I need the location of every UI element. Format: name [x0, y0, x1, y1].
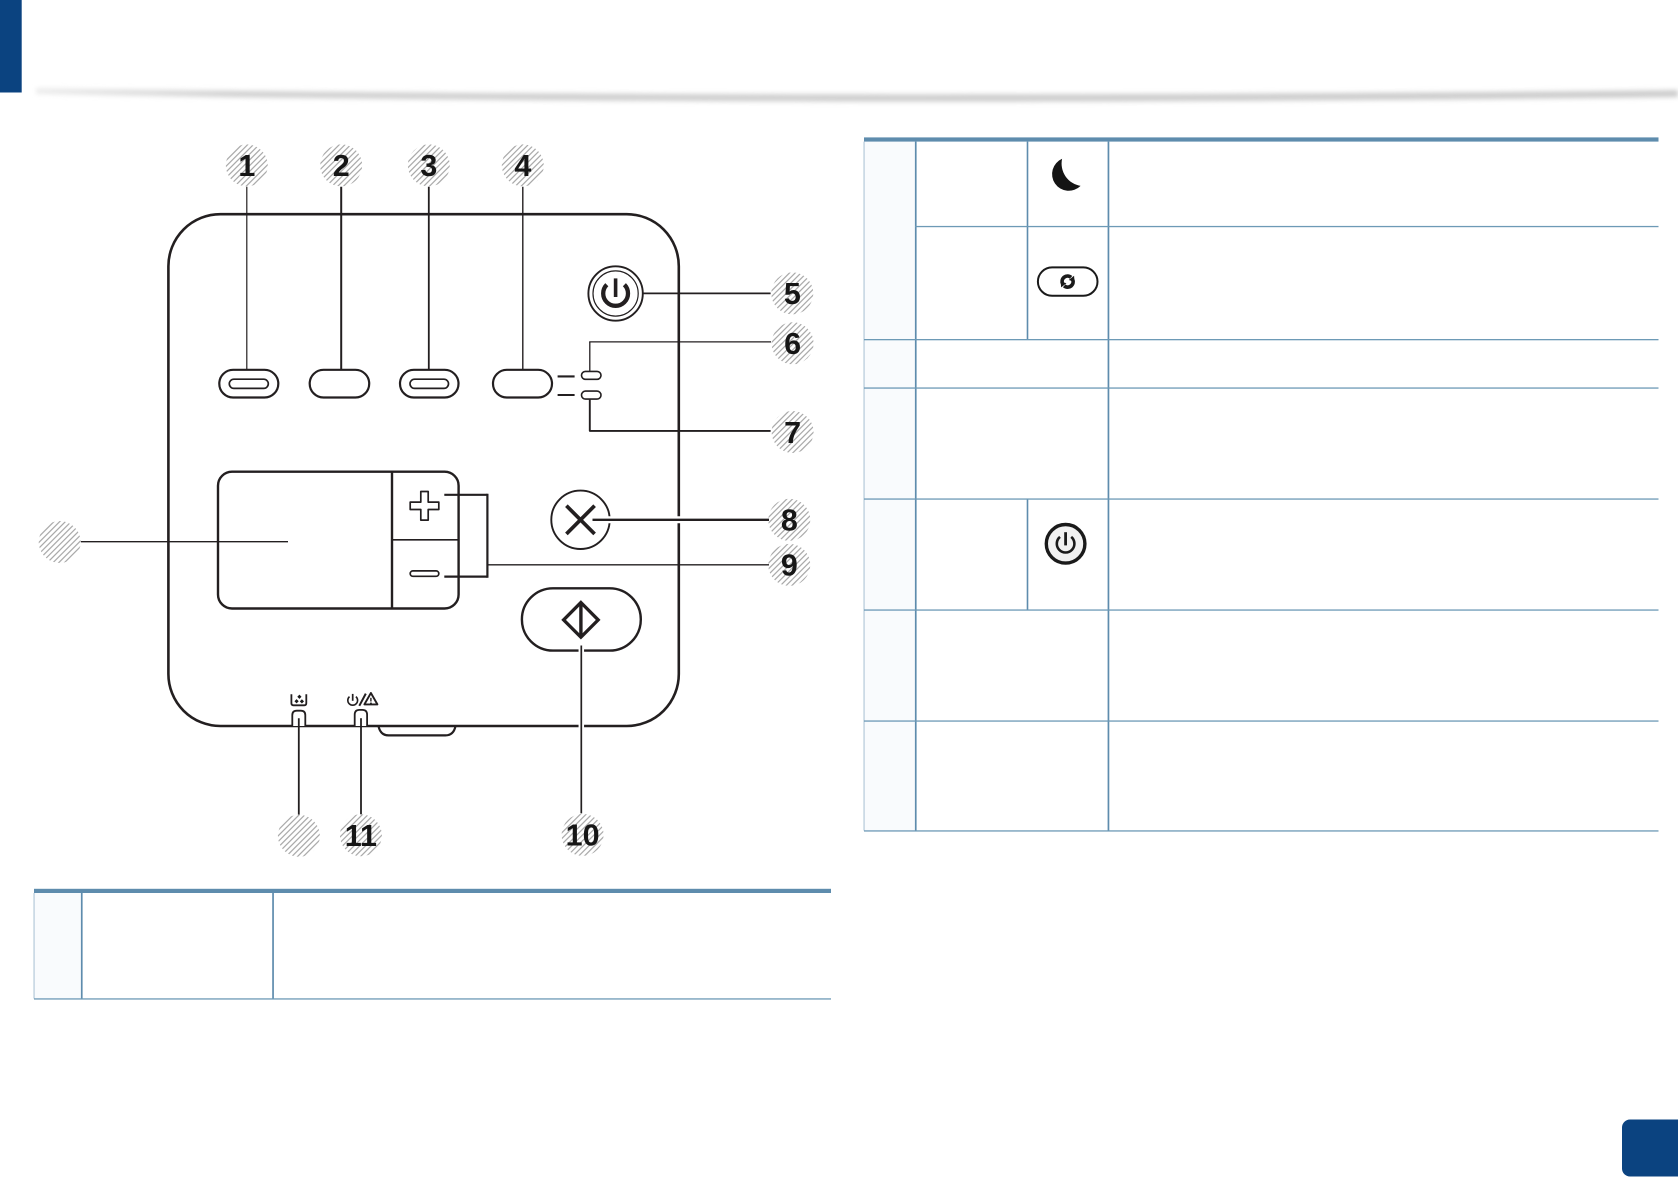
toner unnumbered callout: [278, 815, 320, 857]
bottom border: [34, 998, 831, 999]
svg-text:3: 3: [420, 149, 437, 183]
bracket for +/-: [444, 494, 487, 496]
eco glyph arrows: [1057, 272, 1078, 291]
toner callout line: [298, 718, 300, 814]
bottom tab: [379, 726, 456, 735]
svg-text:5: 5: [784, 277, 801, 311]
svg-text:6: 6: [784, 327, 801, 361]
vertical divider col2/col3 row 5: [1027, 499, 1029, 610]
power LED callout line: [360, 718, 362, 814]
col1 light background: [34, 893, 82, 999]
bottom-right navy block: [1622, 1120, 1678, 1177]
power icon (table): [1046, 525, 1085, 564]
callout line 2: [340, 187, 342, 369]
svg-text:10: 10: [566, 819, 600, 853]
callout line 10 with white casing: [579, 646, 585, 814]
CONTROL PANEL DIAGRAM: [81, 187, 771, 815]
screen divider: [391, 472, 393, 609]
X glyph: [566, 506, 594, 534]
LED dash 2: [558, 394, 575, 396]
screen: [218, 472, 459, 609]
start button: [522, 588, 641, 650]
callout 10: [562, 814, 604, 856]
row border 2: [864, 339, 1659, 340]
callout 11: [340, 814, 382, 856]
panel body outline: [168, 214, 678, 726]
start glyph (diamond + bar): [564, 603, 599, 638]
left callout line: [81, 541, 288, 543]
X (cancel) button: [551, 491, 609, 549]
callout line 3: [428, 187, 430, 369]
button 1: [219, 370, 278, 398]
toner status icon: [291, 694, 306, 705]
header curl shadow band: [0, 0, 1, 1]
callout line 7 (vertical from LED2 + horizontal): [589, 400, 591, 431]
callout 3: [408, 144, 450, 186]
row border 1: [915, 226, 1659, 227]
button 4: [493, 370, 552, 398]
callout 7: [772, 411, 814, 453]
bottom border: [864, 830, 1659, 831]
button 3: [400, 370, 459, 398]
callout line 9: [487, 564, 769, 566]
vertical divider col3/col4: [1108, 142, 1110, 831]
left edge: [34, 893, 35, 999]
power LED: [355, 710, 367, 726]
row border 4: [864, 498, 1659, 499]
minus glyph: [410, 571, 439, 576]
thick top border: [864, 137, 1659, 141]
callout line 8 with white casing: [592, 516, 770, 523]
power/status icons: [348, 693, 378, 706]
screen horizontal divider: [392, 539, 459, 541]
col1 light background: [864, 142, 916, 831]
callout 2: [320, 144, 362, 186]
svg-text:9: 9: [781, 549, 798, 583]
LED dash 1: [558, 375, 575, 377]
callout 6: [772, 322, 814, 364]
left unnumbered callout: [39, 521, 81, 563]
svg-text:4: 4: [514, 149, 531, 183]
left edge: [864, 142, 865, 831]
row border 6: [864, 720, 1659, 721]
callout line 6 (horizontal + vertical to LED1): [589, 341, 771, 343]
thick top border: [34, 889, 831, 893]
vertical divider col2/col3 rows 1-2: [1027, 142, 1029, 340]
svg-text:8: 8: [781, 504, 798, 538]
row border 5: [864, 609, 1659, 610]
LED pill 2: [582, 391, 602, 399]
row border 3: [864, 387, 1659, 388]
top-left navy block: [0, 0, 22, 93]
plus glyph: [410, 492, 439, 521]
callout 8: [768, 499, 810, 541]
power button: [588, 266, 642, 320]
toner LED: [292, 711, 305, 726]
callout 9: [768, 544, 810, 586]
CALLOUT MARKERS: [39, 144, 814, 856]
callout line 1: [246, 187, 248, 369]
vertical divider col2/col3: [272, 893, 274, 999]
LEFT BOTTOM TABLE: [34, 889, 832, 1000]
svg-text:7: 7: [784, 416, 801, 450]
button 2: [310, 370, 370, 398]
svg-text:11: 11: [345, 819, 377, 853]
svg-text:2: 2: [333, 149, 350, 183]
svg-text:1: 1: [238, 149, 255, 183]
callout line 4: [522, 187, 524, 369]
vertical divider col1/col2: [915, 142, 917, 831]
LED pill 1: [582, 371, 602, 379]
eco button: [1038, 267, 1098, 295]
callout 4: [502, 144, 544, 186]
callout 5: [771, 272, 813, 314]
callout 1: [226, 144, 268, 186]
callout line 5: [643, 292, 770, 294]
RIGHT TABLE: [864, 137, 1659, 831]
vertical divider col1/col2: [81, 893, 83, 999]
moon icon: [1052, 159, 1081, 191]
